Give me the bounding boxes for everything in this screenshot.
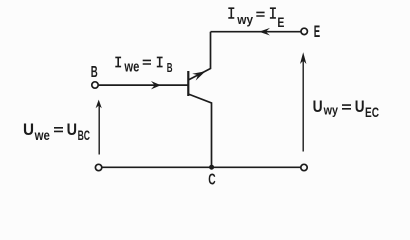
junction node C (209, 165, 214, 170)
current arrow I_wy (259, 28, 270, 36)
label U_we = U_BC (23, 121, 90, 143)
svg-text:wy: wy (236, 12, 253, 27)
svg-text:U: U (313, 98, 323, 116)
svg-text:EC: EC (365, 105, 379, 120)
wire emitter to E (211, 31, 302, 33)
svg-text:wy: wy (323, 104, 338, 118)
current arrow I_we (151, 81, 161, 89)
transistor Q1 collector lead (188, 94, 211, 167)
voltage arrow U_we (96, 100, 102, 155)
node B2 bottom left terminal (95, 164, 101, 170)
transistor Q1 emitter arrow (192, 71, 205, 80)
svg-text:E: E (277, 15, 284, 30)
label I_wy = I_E (228, 8, 284, 30)
svg-text:BC: BC (78, 128, 90, 143)
svg-text:B: B (167, 61, 173, 75)
wire bottom rail (102, 166, 301, 168)
svg-text:U: U (355, 98, 365, 116)
svg-text:C: C (208, 172, 215, 189)
svg-text:B: B (91, 64, 98, 81)
svg-text:U: U (67, 121, 77, 139)
label U_wy = U_EC (313, 98, 379, 120)
svg-text:E: E (314, 23, 320, 41)
transistor Q1 emitter lead (188, 32, 210, 80)
node E2 bottom right terminal (301, 164, 307, 170)
svg-text:we: we (34, 127, 50, 143)
node E terminal (301, 28, 307, 34)
label I_we = I_B (115, 57, 172, 75)
node B terminal (92, 82, 98, 88)
transistor Q1 base bar (187, 71, 189, 96)
wire base lead (99, 84, 188, 86)
svg-text:we: we (124, 59, 140, 75)
voltage arrow U_wy (300, 52, 306, 151)
svg-text:U: U (23, 121, 34, 139)
